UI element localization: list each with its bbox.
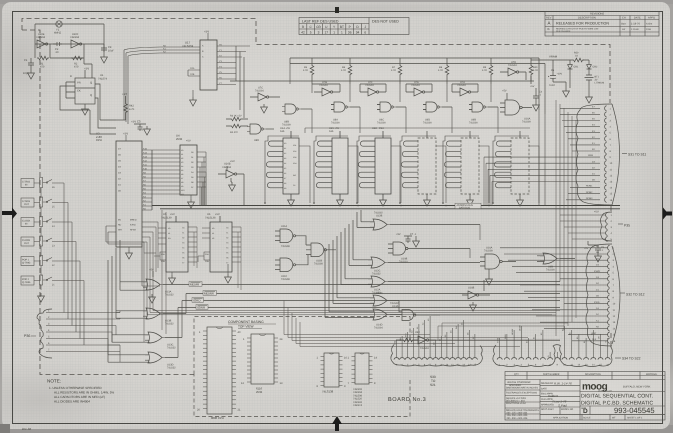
svg-text:S31 TO S11: S31 TO S11 (628, 153, 646, 157)
svg-text:D3: D3 (191, 166, 193, 169)
svg-text:Y7: Y7 (182, 262, 184, 265)
svg-text:Y2: Y2 (182, 237, 184, 240)
svg-text:TOP VIEW: TOP VIEW (238, 325, 253, 329)
ram U19 (optional, dashed) (401, 131, 436, 206)
svg-text:+5: +5 (605, 341, 608, 343)
svg-text:Y5: Y5 (182, 252, 184, 255)
svg-text:A4: A4 (181, 165, 183, 168)
svg-text:A7: A7 (181, 177, 183, 180)
or gate U13D (108, 260, 560, 363)
svg-text:E3: E3 (562, 329, 565, 331)
zone arrow bottom (332, 416, 342, 431)
svg-text:4.7K: 4.7K (391, 69, 396, 72)
resistor R5 4.7K (310, 58, 314, 84)
svg-text:74LS32: 74LS32 (372, 272, 381, 275)
svg-text:DECIMALS ± .010: DECIMALS ± .010 (506, 399, 525, 402)
svg-text:Y1: Y1 (182, 232, 184, 235)
svg-text:MREQ: MREQ (130, 218, 137, 221)
node dots on bus (264, 202, 494, 206)
svg-text:E0: E0 (526, 341, 529, 343)
svg-text:D0: D0 (433, 343, 436, 345)
svg-text:+5V: +5V (594, 211, 599, 214)
ground left column (38, 293, 45, 302)
svg-text:P36: P36 (24, 334, 30, 338)
svg-text:D1: D1 (191, 156, 193, 159)
svg-text:E4: E4 (569, 333, 572, 335)
nand U8B first stage (282, 104, 312, 114)
svg-text:QTY: QTY (514, 373, 519, 376)
repeated gate unit 3: inverter U7E (406, 84, 432, 96)
nand U11C (275, 258, 304, 272)
svg-text:A2: A2 (181, 157, 183, 160)
svg-text:A1: A1 (181, 153, 183, 156)
svg-text:ALL RESISTORS ARE IN OHMS, 1/4: ALL RESISTORS ARE IN OHMS, 1/4W, 5% (54, 391, 114, 395)
U17 input wires A0-A2 (124, 47, 200, 56)
svg-text:DATE: DATE (541, 387, 547, 390)
svg-text:PART NUMBER: PART NUMBER (543, 373, 560, 376)
svg-text:A0: A0 (284, 142, 286, 145)
svg-text:CPU: CPU (96, 138, 102, 142)
svg-text:D7: D7 (472, 337, 475, 339)
svg-text:74LS02: 74LS02 (390, 302, 399, 305)
connector P36 outline (37, 309, 52, 358)
svg-text:A8: A8 (181, 181, 183, 184)
+5V C7 cap (404, 236, 419, 247)
svg-text:8080 CPU: 8080 CPU (211, 416, 224, 420)
resistor and inverter U9C bottom (396, 336, 436, 344)
wire mid rail (230, 46, 534, 118)
svg-text:.251-.500 ±.003-.006: .251-.500 ±.003-.006 (506, 417, 528, 420)
capacitor C3 .1 with +5V (134, 124, 150, 135)
svg-text:74LS10: 74LS10 (399, 260, 408, 263)
connector S32 right brace (612, 246, 620, 344)
svg-text:+5V: +5V (204, 29, 209, 33)
svg-text:ROM2: ROM2 (586, 191, 593, 194)
svg-text:Y6: Y6 (226, 257, 228, 260)
connector box CLOCK OUT with J3 switch (21, 236, 76, 324)
svg-text:RELEASED FOR PRODUCTION: RELEASED FOR PRODUCTION (556, 22, 609, 26)
svg-text:10pF: 10pF (23, 72, 29, 75)
svg-text:74LS74: 74LS74 (98, 77, 108, 80)
svg-text:D6: D6 (466, 333, 469, 335)
svg-text:DATA BUS: DATA BUS (459, 207, 470, 210)
nand U16A big (500, 93, 532, 115)
svg-text:C7 .1: C7 .1 (410, 233, 417, 236)
svg-text:E2: E2 (540, 333, 543, 335)
svg-text:4.7K: 4.7K (533, 69, 538, 72)
svg-text:A0: A0 (212, 227, 214, 230)
wire VRAM rail (531, 58, 589, 114)
svg-text:ime-04: ime-04 (22, 427, 32, 431)
svg-text:993-045545: 993-045545 (614, 406, 655, 415)
svg-text:+20V: +20V (557, 73, 563, 76)
capacitor C2 (53, 42, 62, 46)
G2A/G2B select (188, 70, 200, 76)
svg-text:Y0: Y0 (182, 227, 184, 230)
wires mid horizontals feeding right fans (236, 46, 560, 340)
svg-text:A5: A5 (284, 167, 286, 170)
svg-text:Y0: Y0 (226, 227, 228, 230)
svg-text:DESCRIPTION: DESCRIPTION (585, 373, 601, 376)
S34 pin stubs (500, 326, 608, 358)
svg-text:IORD: IORD (193, 298, 201, 302)
svg-text:A3: A3 (427, 319, 430, 321)
connector box POP 2 Q-TRIG with J1 switch (21, 275, 84, 332)
svg-text:STRB: STRB (497, 337, 500, 343)
svg-text:74LS09: 74LS09 (484, 250, 493, 253)
ground U2 (126, 250, 133, 259)
svg-text:36: 36 (348, 31, 352, 35)
inverter U16B mid (218, 166, 244, 205)
svg-text:10uF: 10uF (108, 49, 114, 52)
wire oscillator to U2 clock (60, 84, 126, 134)
svg-text:MEMR: MEMR (518, 325, 521, 331)
or gate U12C (349, 220, 480, 268)
svg-text:CH: CH (622, 16, 626, 19)
crystal Y1 (56, 21, 62, 27)
svg-text:ALL DIODES ARE IN4004: ALL DIODES ARE IN4004 (54, 400, 90, 404)
svg-text:WR: WR (118, 228, 122, 231)
svg-text:Y4: Y4 (226, 247, 228, 250)
nand U11A (275, 229, 304, 243)
resistor R42 4.7K (124, 96, 128, 120)
svg-text:RFSH: RFSH (130, 228, 136, 231)
component basing dashed box (194, 317, 410, 417)
svg-text:D4: D4 (191, 171, 193, 174)
connector S31 outline (576, 104, 612, 205)
svg-text:A9: A9 (284, 187, 286, 190)
svg-text:I/O1: I/O1 (293, 144, 296, 147)
svg-text:A1: A1 (168, 232, 170, 235)
flip-flop U1 74LS74 (66, 58, 95, 115)
svg-text:I/O3: I/O3 (293, 156, 296, 159)
svg-text:A1: A1 (284, 147, 286, 150)
svg-text:ROM1: ROM1 (586, 185, 593, 188)
svg-text:OUT: OUT (24, 242, 30, 245)
svg-text:616: 616 (329, 130, 334, 133)
svg-text:2532: 2532 (256, 390, 263, 394)
svg-text:A7: A7 (284, 177, 286, 180)
svg-text:A6: A6 (284, 172, 286, 175)
or gate U13B (116, 248, 560, 319)
svg-text:74LS139: 74LS139 (161, 216, 172, 219)
svg-text:A2: A2 (212, 237, 214, 240)
svg-text:+5V: +5V (186, 140, 191, 143)
resistor R3 1K (226, 117, 248, 121)
repeated gate unit 4: inverter U7A (452, 84, 478, 96)
svg-text:D4: D4 (455, 327, 458, 329)
svg-text:+5V: +5V (123, 132, 128, 136)
svg-text:+5V: +5V (584, 247, 589, 250)
inverter U7D right (500, 68, 526, 80)
ram U14 616 (266, 131, 299, 206)
svg-text:IOWR: IOWR (594, 270, 600, 273)
svg-text:+5V: +5V (230, 160, 235, 163)
svg-text:+5V: +5V (122, 92, 127, 96)
svg-text:SHEET 1 OF 1: SHEET 1 OF 1 (627, 417, 643, 420)
or gate U9B right (537, 253, 575, 264)
svg-text:A2: A2 (422, 323, 425, 325)
wires P36 to gates (108, 311, 120, 362)
svg-text:PER CHANGE: PER CHANGE (556, 30, 571, 33)
zone arrow left (2, 208, 17, 220)
svg-text:MUSIC AT LAST: MUSIC AT LAST (598, 389, 613, 392)
svg-text:74LS00: 74LS00 (546, 268, 555, 271)
svg-text:D2: D2 (191, 161, 193, 164)
svg-text:Gart: Gart (621, 22, 626, 25)
ground under C6 (563, 88, 570, 97)
decoder U6 74LS138 (210, 216, 232, 272)
svg-text:1. UNLESS OTHERWISE SPECIFIED: 1. UNLESS OTHERWISE SPECIFIED (49, 386, 102, 390)
svg-text:C1: C1 (24, 59, 28, 62)
or gate U13C (112, 256, 560, 343)
svg-text:MEMR: MEMR (190, 282, 200, 286)
wire inter-stage (50, 44, 84, 58)
svg-text:LAST REF DES USED: LAST REF DES USED (302, 19, 339, 23)
svg-text:G2B: G2B (190, 73, 195, 76)
svg-text:Q: Q (90, 82, 92, 85)
revision table (545, 12, 659, 37)
inverter U10E (37, 40, 48, 48)
svg-text:Halbert: Halbert (548, 394, 558, 398)
svg-text:17: 17 (325, 31, 329, 35)
S33 pin stubs (397, 316, 475, 358)
svg-text:74LS74: 74LS74 (353, 404, 363, 407)
svg-text:DES NOT USED: DES NOT USED (372, 19, 399, 23)
U2 address/data pin stubs (126, 135, 152, 210)
svg-text:PR: PR (77, 82, 81, 85)
svg-text:COMPONENT BASING: COMPONENT BASING (228, 320, 264, 324)
svg-text:IOWR: IOWR (197, 305, 206, 309)
svg-text:NEXT ASSY: NEXT ASSY (541, 408, 554, 411)
svg-text:74LS00: 74LS00 (331, 122, 340, 125)
svg-text:IN: IN (25, 223, 28, 226)
U4 output stubs (197, 152, 206, 187)
svg-text:3: 3 (318, 31, 320, 35)
wire oscillator loop (35, 24, 104, 58)
svg-text:GND: GND (394, 340, 397, 345)
repeated gate unit 2: inverter U7F (360, 84, 386, 96)
nand U8A (331, 102, 360, 112)
connector box POP 1 Q-TRIG with J2 switch (21, 256, 80, 329)
resistor R9 4.7K (489, 58, 493, 84)
svg-text:74LS04: 74LS04 (255, 90, 264, 93)
svg-text:+5V: +5V (84, 66, 89, 70)
svg-text:TOLERANCES EXCEPTIONS: TOLERANCES EXCEPTIONS (506, 391, 537, 394)
wire gate outputs down to ram WE (305, 84, 530, 133)
svg-text:P.DB: P.DB (646, 28, 651, 31)
svg-text:1-19-76: 1-19-76 (631, 22, 640, 25)
svg-text:WEN: WEN (504, 334, 507, 339)
svg-text:A3: A3 (284, 157, 286, 160)
and gate U16C right (480, 254, 516, 285)
svg-text:U11A: U11A (281, 225, 287, 228)
svg-text:A1: A1 (416, 327, 419, 329)
svg-text:74LS00: 74LS00 (377, 122, 386, 125)
svg-text:IORQ: IORQ (130, 223, 136, 226)
svg-text:D: D (583, 408, 588, 415)
svg-text:RD: RD (118, 223, 122, 226)
svg-text:DIMENSIONS ARE IN INCHES: DIMENSIONS ARE IN INCHES (506, 387, 539, 390)
inverter U7C first stage (250, 93, 280, 113)
resistor R40 4.7K (529, 58, 533, 84)
connector P35 outline (601, 212, 613, 241)
svg-text:R3 1K +5V: R3 1K +5V (230, 115, 242, 118)
svg-text:CR: CR (316, 25, 321, 29)
svg-text:74LS04: 74LS04 (36, 36, 46, 39)
svg-text:BUFFALO, NEW YORK: BUFFALO, NEW YORK (623, 386, 651, 389)
resistor R1 470 (37, 56, 49, 60)
label IORD (192, 298, 204, 303)
svg-text:D6: D6 (191, 181, 193, 184)
svg-text:SCALE: SCALE (583, 417, 591, 420)
svg-text:74LS32: 74LS32 (165, 323, 174, 326)
svg-text:REV: REV (546, 16, 552, 19)
svg-text:74LS00: 74LS00 (469, 122, 478, 125)
svg-text:74LS138: 74LS138 (205, 216, 216, 219)
label S32 TO S12 (620, 292, 625, 294)
svg-text:U16B: U16B (468, 287, 475, 290)
nand U9B (469, 102, 498, 112)
ground under C1 (28, 70, 35, 79)
svg-text:OUT: OUT (24, 203, 30, 206)
label S31 TO S11 (622, 153, 627, 155)
svg-text:+5V: +5V (396, 233, 401, 236)
ram U21 (optional, dashed) (494, 131, 529, 206)
svg-text:A8: A8 (284, 182, 286, 185)
svg-text:VRAM: VRAM (549, 54, 558, 58)
svg-text:Y5: Y5 (226, 252, 228, 255)
svg-text:Q-TRIG: Q-TRIG (22, 281, 31, 284)
resistor R7 4.7K (398, 58, 402, 84)
svg-text:DIGITAL SEQUENTIAL CONT.: DIGITAL SEQUENTIAL CONT. (581, 394, 653, 400)
svg-text:+5V: +5V (502, 90, 507, 93)
or gate U13A (120, 240, 560, 303)
svg-text:4.7K: 4.7K (482, 69, 487, 72)
svg-text:74LS09: 74LS09 (522, 121, 531, 124)
diode CR2 (587, 65, 592, 73)
svg-text:CR1: CR1 (574, 66, 579, 69)
svg-text:616: 616 (280, 130, 285, 133)
svg-text:2-20-80: 2-20-80 (631, 28, 639, 31)
svg-text:CR2: CR2 (593, 66, 598, 69)
or gate U14B with nand U14A pair (325, 244, 440, 321)
svg-text:4.7K: 4.7K (341, 69, 346, 72)
ground U1 (82, 106, 89, 115)
wire S31 data stub drops (484, 157, 492, 205)
S33 rotated pin labels (394, 319, 475, 345)
eprom U4 2532 (180, 145, 197, 195)
svg-text:5: 5 (310, 31, 312, 35)
svg-text:E6: E6 (583, 341, 586, 343)
svg-text:TANT: TANT (549, 84, 556, 87)
svg-text:74LS04: 74LS04 (457, 84, 466, 87)
ground U17 (190, 97, 197, 106)
svg-text:74LS32: 74LS32 (165, 294, 174, 297)
inverter U10F (71, 40, 82, 48)
ground under C9 (101, 54, 108, 63)
resistor R50 18 (572, 58, 584, 62)
svg-text:42: 42 (301, 31, 305, 35)
svg-text:D0: D0 (191, 151, 193, 154)
svg-text:74LS138: 74LS138 (322, 389, 334, 393)
microprocessor U2 Z-80 CPU (116, 141, 142, 247)
svg-text:IN: IN (25, 184, 28, 187)
last-ref-des-used table (299, 18, 409, 35)
ground U4 (188, 199, 195, 208)
svg-text:DRAWN BY: DRAWN BY (541, 382, 554, 385)
ram U15 616 (315, 131, 348, 206)
diode CR1 (568, 65, 573, 89)
resistor R6 4.7K (348, 58, 352, 84)
svg-text:MEMW: MEMW (204, 291, 214, 295)
dip outline 74LS138 16-pin (324, 353, 339, 387)
svg-text:D5: D5 (191, 176, 193, 179)
svg-text:1: 1 (333, 31, 335, 35)
svg-text:74LS04: 74LS04 (70, 36, 80, 39)
svg-text:SPECIFIED: SPECIFIED (509, 384, 521, 387)
ground U5 (169, 275, 176, 284)
svg-text:1: 1 (341, 31, 343, 35)
capacitor C1 10pF (28, 58, 34, 70)
svg-text:D2: D2 (444, 335, 447, 337)
svg-text:A11: A11 (181, 193, 184, 196)
P36 pin stubs (46, 312, 120, 352)
svg-text:S.Paul: S.Paul (558, 403, 567, 407)
svg-text:MEMW: MEMW (511, 329, 514, 335)
zone arrow right (663, 208, 672, 220)
nand U11B (304, 236, 336, 265)
svg-text:ADDRESS BUS: ADDRESS BUS (457, 204, 474, 207)
svg-text:E7: E7 (590, 333, 593, 335)
svg-text:D: D (70, 75, 72, 78)
svg-text:U18: U18 (372, 127, 377, 130)
dip outline 2532 24-pin (251, 334, 274, 384)
svg-text:WT: WT (612, 417, 616, 420)
svg-text:74LS08: 74LS08 (314, 262, 323, 265)
svg-text:470: 470 (74, 66, 79, 69)
U4 input fan wires (152, 150, 180, 194)
svg-text:BT: BT (340, 25, 344, 29)
corner smudge bottom left (0, 424, 10, 433)
svg-text:D7: D7 (191, 186, 193, 189)
svg-text:74LS04: 74LS04 (411, 84, 420, 87)
svg-text:CK: CK (77, 90, 81, 93)
svg-text:A1: A1 (212, 232, 214, 235)
label MEMW (203, 291, 217, 296)
ground U6 (225, 274, 232, 283)
address bus and data bus lines (152, 150, 620, 210)
svg-text:U12B: U12B (376, 215, 383, 218)
connector S31 right brace (612, 104, 620, 205)
svg-text:4.7K: 4.7K (438, 69, 443, 72)
svg-text:E1: E1 (533, 337, 536, 339)
svg-text:WEB: WEB (588, 154, 594, 157)
ram U18 616 (358, 131, 391, 206)
svg-text:A2: A2 (284, 152, 286, 155)
svg-text:B: B (548, 27, 550, 31)
svg-text:2532: 2532 (176, 137, 183, 141)
svg-text:A0: A0 (181, 149, 183, 152)
address bus label (455, 203, 481, 208)
svg-text:74LS09: 74LS09 (282, 124, 291, 127)
svg-text:R4 470: R4 470 (230, 131, 238, 134)
svg-text:IORD: IORD (594, 301, 600, 304)
svg-text:A9: A9 (181, 185, 183, 188)
svg-text:U8D: U8D (254, 139, 259, 142)
svg-text:+5V: +5V (215, 213, 220, 216)
ground under BT1 (586, 94, 593, 103)
